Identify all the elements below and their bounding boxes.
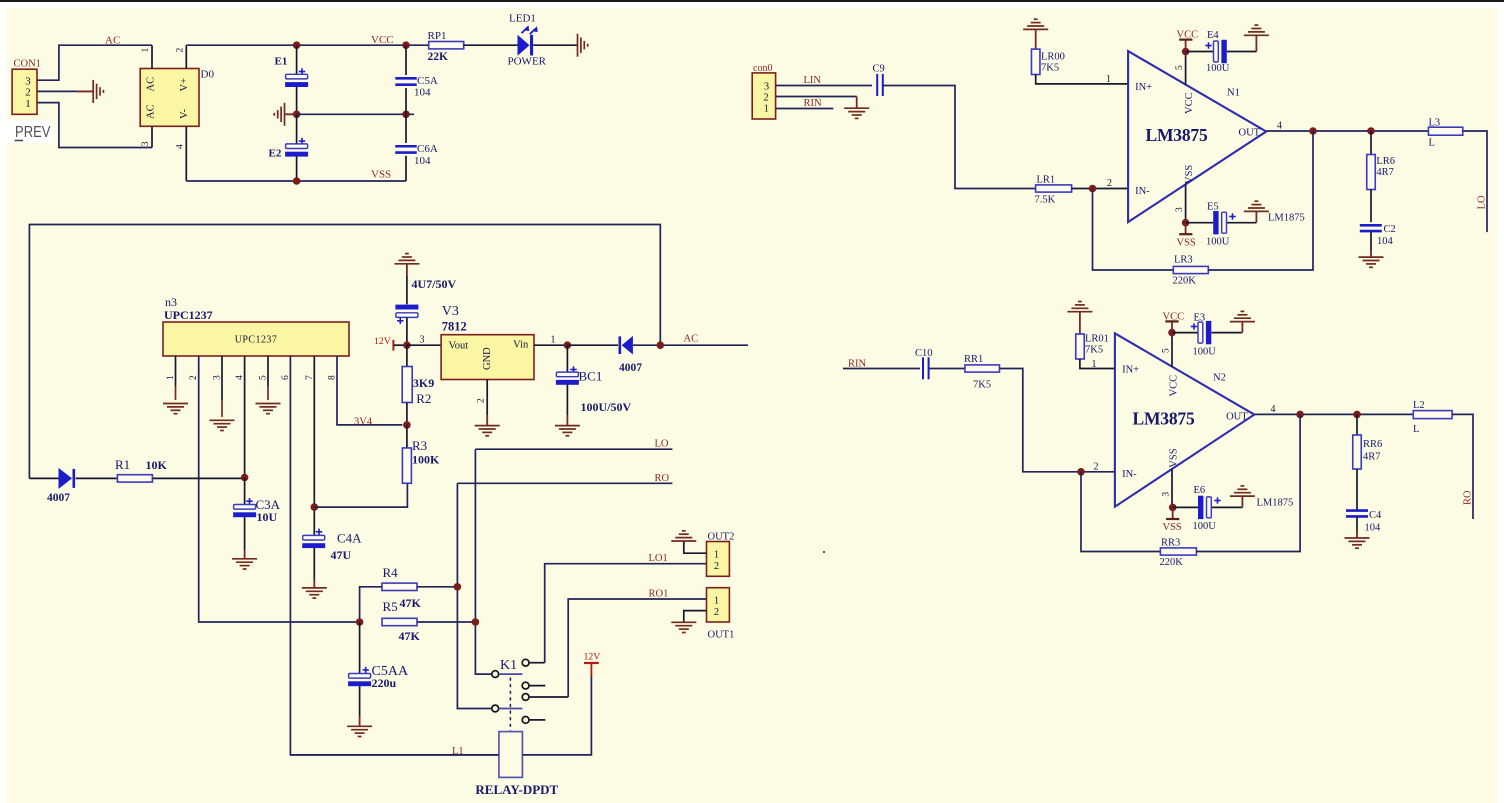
wire diode to AC node [633, 344, 748, 346]
svg-text:AC: AC [684, 334, 699, 345]
wire RR3 to OUT N2 [1197, 414, 1301, 551]
svg-text:104: 104 [414, 87, 431, 99]
svg-text:RR1: RR1 [964, 354, 983, 365]
svg-text:IN+: IN+ [1135, 82, 1152, 93]
LED LED1 [518, 35, 530, 56]
pin 3 of N1 [1185, 184, 1187, 222]
pin 7 lead of UPC1237 [313, 356, 315, 507]
ground at CON1 pin2 [93, 80, 103, 103]
pin 6 lead wire of UPC1237 [290, 356, 499, 755]
diode 4007 at regulator [567, 344, 618, 346]
ground at supply midpoint [285, 113, 296, 115]
wire contact D to RO1 [568, 599, 706, 697]
resistor LR3 [1173, 266, 1208, 273]
wire coil left to pin6 wire [290, 754, 499, 756]
ground at V3 pin2 [475, 426, 500, 436]
connector con0 [752, 73, 775, 119]
node junction pin7-R3 [311, 503, 319, 511]
node junction AC branch [657, 341, 665, 349]
inductor L3 [1428, 127, 1462, 135]
svg-text:RO1: RO1 [649, 588, 669, 599]
svg-text:100U: 100U [1193, 521, 1217, 532]
wire LED1 to ground [533, 44, 577, 46]
wire CON1 pin1 to D0 pin3 [37, 103, 152, 148]
wire con0 pin3 to C9 [776, 85, 872, 87]
svg-text:V-: V- [179, 108, 190, 119]
svg-text:R1: R1 [115, 457, 130, 472]
node junction VCC-C5A [402, 41, 410, 49]
svg-text:100U: 100U [1193, 346, 1217, 357]
node junction VCC-E1 [293, 41, 301, 49]
svg-text:VCC: VCC [1163, 311, 1185, 322]
svg-text:4U7/50V: 4U7/50V [412, 277, 457, 291]
ground right of E5 [1244, 201, 1269, 211]
node VSS label at N2 [1166, 518, 1179, 520]
capacitor E1 [296, 45, 298, 74]
svg-text:POWER: POWER [508, 56, 547, 68]
wire 12V node to V3 Vout [407, 344, 441, 346]
svg-text:4: 4 [175, 144, 185, 149]
svg-text:6: 6 [281, 375, 291, 380]
relay actuator dashed link [509, 678, 511, 732]
svg-text:104: 104 [414, 155, 431, 167]
IC n3 UPC1237 [163, 322, 349, 356]
svg-text:E6: E6 [1194, 485, 1206, 496]
resistor RP1 [429, 42, 464, 49]
wire coil right to 12V [522, 676, 591, 755]
connector CON1 [12, 69, 37, 114]
svg-text:4: 4 [235, 375, 245, 380]
svg-text:R5: R5 [383, 599, 398, 614]
svg-text:E5: E5 [1207, 201, 1219, 212]
wire contact A to LO1 [545, 564, 707, 663]
svg-text:10U: 10U [257, 510, 278, 524]
svg-text:RR6: RR6 [1363, 439, 1382, 450]
wire C2 to ground [1370, 231, 1372, 250]
pin 2 lead wire of UPC1237 [199, 356, 360, 622]
svg-text:LO: LO [655, 439, 669, 450]
wire con0 pin1 RIN stub [776, 108, 834, 110]
svg-text:VCC: VCC [1177, 29, 1199, 40]
svg-text:12V: 12V [374, 336, 391, 347]
wire E4 to ground [1227, 51, 1256, 53]
svg-text:3V4: 3V4 [354, 416, 373, 427]
svg-text:47K: 47K [399, 629, 421, 643]
svg-text:7: 7 [305, 375, 315, 380]
svg-text:22K: 22K [428, 51, 449, 63]
svg-text:L: L [1429, 138, 1435, 149]
svg-text:Vin: Vin [513, 340, 529, 351]
capacitor C5A [405, 45, 407, 75]
svg-text:LR1: LR1 [1037, 175, 1056, 186]
wire pin7 node to R3 bottom [314, 483, 407, 507]
node VCC label at N2 [1165, 320, 1178, 322]
wire VSS rail [186, 180, 406, 182]
capacitor C5AA [359, 622, 361, 674]
wire feedback down N2 [1081, 472, 1160, 552]
svg-text:3: 3 [764, 81, 769, 92]
svg-text:PREV: PREV [15, 124, 51, 141]
wire V3 Vin to BC1 [534, 344, 567, 346]
speck [823, 551, 825, 553]
ground right of E3 [1230, 311, 1255, 321]
pin 3 of N2 [1171, 469, 1173, 507]
svg-text:LR6: LR6 [1376, 156, 1395, 167]
svg-text:2: 2 [175, 48, 185, 53]
svg-text:VCC: VCC [371, 34, 394, 46]
node junction OUT-RR6 [1353, 411, 1361, 419]
ground above 4U7 capacitor [394, 254, 419, 264]
connector OUT1 [707, 588, 730, 622]
svg-text:VSS: VSS [1163, 522, 1182, 533]
svg-text:VSS: VSS [1177, 237, 1196, 248]
power port 12V at relay [590, 664, 592, 677]
wire RR1 to IN- of N2 [1000, 369, 1115, 472]
wire L2 to RO output [1452, 414, 1473, 519]
svg-text:2: 2 [714, 561, 719, 572]
svg-text:n3: n3 [165, 295, 177, 309]
node junction mid-E1 [293, 111, 301, 119]
contact D of K1 [522, 694, 529, 701]
svg-text:BC1: BC1 [579, 369, 603, 384]
svg-text:RIN: RIN [804, 98, 823, 109]
node junction IN- N2 [1077, 468, 1085, 476]
svg-text:1: 1 [764, 104, 769, 115]
svg-text:4R7: 4R7 [1363, 452, 1381, 463]
svg-text:220K: 220K [1160, 557, 1184, 568]
svg-text:1: 1 [714, 596, 719, 607]
svg-text:4: 4 [1271, 404, 1276, 415]
svg-text:LM1875: LM1875 [1268, 213, 1305, 224]
svg-text:7K5: 7K5 [973, 380, 991, 391]
pin 2 of V3 [486, 380, 488, 416]
pin 4 lead of UPC1237 [244, 356, 246, 478]
svg-text:LIN: LIN [804, 75, 822, 86]
svg-text:2: 2 [763, 92, 768, 103]
arm of pole E [499, 708, 522, 710]
svg-text:VSS: VSS [1169, 448, 1180, 467]
svg-text:1: 1 [714, 550, 719, 561]
ground below C2 [1359, 257, 1384, 267]
capacitor C3A [244, 478, 246, 505]
ground below BC1 [555, 426, 580, 436]
svg-text:R4: R4 [383, 565, 399, 580]
arm of pole B [499, 673, 522, 675]
pin 5 lead of UPC1237 [267, 356, 269, 386]
wire C9 to LR1 [883, 86, 1035, 189]
svg-text:UPC1237: UPC1237 [164, 308, 213, 322]
svg-text:OUT: OUT [1239, 128, 1261, 139]
node junction OUT-LR6 [1367, 127, 1375, 135]
contact F of K1 [522, 717, 529, 724]
ground right of E6 [1230, 486, 1255, 496]
svg-text:D0: D0 [201, 69, 215, 81]
node VCC label at N1 [1179, 38, 1192, 40]
resistor R3 100K [406, 425, 408, 448]
node junction R4-RO [454, 583, 462, 591]
wire LO from relay [475, 448, 672, 450]
capacitor BC1 [566, 345, 568, 372]
svg-text:Vout: Vout [449, 341, 469, 352]
capacitor C4 [1356, 469, 1358, 511]
svg-text:VCC: VCC [1184, 92, 1195, 114]
pole E of K1 [492, 705, 499, 712]
svg-text:RR3: RR3 [1161, 538, 1180, 549]
ground right of E4 [1244, 25, 1269, 35]
svg-text:LM1875: LM1875 [1257, 498, 1294, 509]
svg-text:C4A: C4A [337, 531, 362, 546]
svg-text:2: 2 [25, 87, 31, 99]
svg-text:1: 1 [141, 48, 151, 53]
svg-text:con0: con0 [753, 63, 772, 74]
capacitor C10 [923, 357, 929, 379]
wire R4 left [360, 587, 382, 622]
pin 8 lead wire of UPC1237 [337, 356, 402, 425]
svg-text:RO: RO [1463, 490, 1474, 505]
svg-text:L3: L3 [1429, 118, 1441, 129]
node junction VSS-E2 [293, 177, 301, 185]
ground at con0 pin2 [844, 108, 869, 118]
capacitor 4U7/50V [406, 264, 408, 276]
resistor LR1 [1036, 185, 1072, 192]
svg-text:47U: 47U [331, 548, 352, 562]
svg-text:12V: 12V [584, 652, 601, 663]
capacitor C9 [877, 74, 883, 96]
op-amp N1 LM3875 [1128, 51, 1266, 222]
svg-text:K1: K1 [500, 658, 517, 673]
ground below OUT1 [671, 622, 696, 632]
svg-text:3: 3 [141, 141, 151, 146]
svg-text:104: 104 [1377, 236, 1394, 247]
svg-text:LO1: LO1 [649, 553, 668, 564]
wire feedback down N1 [1093, 189, 1174, 271]
svg-text:V+: V+ [179, 78, 190, 92]
svg-text:IN+: IN+ [1122, 364, 1139, 375]
svg-text:10K: 10K [146, 458, 168, 472]
svg-text:E4: E4 [1207, 30, 1219, 41]
node junction IN- N1 [1089, 185, 1097, 193]
svg-text:E3: E3 [1194, 313, 1206, 324]
wire LR3 to OUT [1208, 131, 1313, 270]
svg-text:7K5: 7K5 [1041, 63, 1059, 74]
wire RO from relay [457, 482, 672, 484]
wire E6 to ground [1212, 506, 1243, 508]
wire CON1 pin2 to ground [37, 90, 76, 92]
svg-text:CON1: CON1 [14, 59, 41, 70]
capacitor C6A [405, 114, 407, 143]
button PREV overlay [5, 121, 54, 144]
ground below C4A [302, 588, 327, 598]
pin 1 lead of UPC1237 [175, 356, 177, 386]
bridge rectifier D0 [140, 69, 199, 127]
svg-text:R2: R2 [416, 391, 431, 406]
svg-text:100U/50V: 100U/50V [581, 400, 632, 414]
svg-text:OUT1: OUT1 [708, 630, 735, 641]
node junction R5-C5AA [356, 618, 364, 626]
svg-text:220K: 220K [1173, 276, 1197, 287]
capacitor E6 [1173, 506, 1198, 508]
resistor RR1 [965, 365, 1000, 372]
wire LR1 to IN- of N1 [1072, 188, 1129, 190]
pole B of K1 [492, 671, 499, 678]
svg-text:IN-: IN- [1135, 186, 1150, 197]
svg-text:VCC: VCC [1169, 375, 1180, 397]
svg-text:C5A: C5A [417, 75, 438, 87]
svg-text:2: 2 [477, 398, 487, 403]
wire OUT of N1 [1266, 130, 1428, 132]
wire OUT1 pin2 to ground [684, 611, 707, 623]
svg-text:2: 2 [1094, 462, 1099, 473]
svg-text:LO: LO [1477, 195, 1488, 209]
svg-text:47K: 47K [400, 596, 422, 610]
svg-text:100U: 100U [1206, 63, 1230, 74]
svg-text:3: 3 [420, 335, 425, 346]
node junction Vin-BC1 [564, 341, 572, 349]
ground after LED1 [578, 34, 588, 57]
svg-text:LM3875: LM3875 [1146, 125, 1208, 145]
resistor LR00 [1035, 29, 1037, 49]
wire C10 to RR1 [929, 368, 965, 370]
node junction 3V4 [403, 421, 411, 429]
inductor L2 [1413, 411, 1452, 419]
svg-text:100U: 100U [1206, 236, 1230, 247]
capacitor E4 [1186, 51, 1214, 53]
svg-text:3K9: 3K9 [413, 376, 434, 390]
wire R5 right [417, 621, 475, 623]
svg-text:LM3875: LM3875 [1133, 408, 1195, 428]
wire R1 to pin4 node [153, 477, 245, 479]
ground above LR00 [1023, 19, 1048, 29]
svg-text:220u: 220u [372, 676, 397, 690]
svg-text:VSS: VSS [1184, 165, 1195, 184]
pin 4 of D0 [185, 126, 187, 181]
op-amp N2 LM3875 [1115, 333, 1254, 506]
svg-text:3: 3 [1161, 492, 1171, 497]
wire con0 pin2 to ground [776, 96, 857, 98]
node junction 12V [403, 341, 411, 349]
svg-text:V3: V3 [442, 304, 459, 319]
svg-text:C4: C4 [1369, 510, 1382, 521]
wire LO vertical [475, 449, 491, 674]
connector OUT2 [707, 542, 730, 577]
svg-text:C10: C10 [915, 348, 933, 359]
svg-text:C6A: C6A [417, 143, 438, 155]
svg-text:OUT2: OUT2 [708, 531, 735, 542]
svg-text:LR00: LR00 [1041, 52, 1065, 63]
svg-text:VSS: VSS [371, 169, 391, 181]
svg-text:AC: AC [105, 34, 120, 46]
resistor LR01 [1079, 312, 1081, 334]
svg-text:1: 1 [1092, 359, 1097, 370]
svg-text:3: 3 [1175, 207, 1185, 212]
svg-text:4R7: 4R7 [1376, 167, 1394, 178]
wire L3 to LO output [1463, 131, 1487, 232]
svg-text:3: 3 [213, 375, 223, 380]
capacitor E3 [1172, 332, 1198, 334]
node junction OUT-feedback N1 [1309, 127, 1317, 135]
capacitor C2 [1370, 190, 1372, 223]
svg-text:C9: C9 [873, 64, 885, 75]
ground below C5AA [347, 726, 372, 736]
node junction R5-LO [472, 618, 480, 626]
node VSS label at N1 [1179, 233, 1192, 235]
resistor R5 [382, 618, 417, 625]
wire OUT2 pin1 to ground [684, 541, 707, 553]
wire CON1 pin3 to AC top [37, 45, 152, 80]
ground at UPC pin1 [163, 404, 188, 414]
resistor RR6 [1356, 414, 1358, 435]
svg-text:N1: N1 [1227, 88, 1240, 99]
pin 3 of D0 [151, 126, 153, 147]
resistor LR6 [1370, 131, 1372, 154]
wire left loop top [29, 225, 660, 479]
svg-text:L2: L2 [1413, 400, 1425, 411]
wire LR00 to IN+ of N1 [1036, 75, 1128, 84]
node junction R1-pin4 [241, 474, 249, 482]
svg-text:LR01: LR01 [1085, 333, 1109, 344]
svg-text:104: 104 [1365, 523, 1382, 534]
svg-text:1: 1 [1106, 74, 1111, 85]
svg-text:RP1: RP1 [428, 30, 447, 42]
pin 5 of N2 [1171, 333, 1173, 367]
resistor R1 [117, 475, 152, 482]
svg-text:E2: E2 [269, 148, 282, 160]
svg-text:UPC1237: UPC1237 [235, 335, 278, 346]
svg-text:7.5K: 7.5K [1035, 195, 1056, 206]
pin 3 lead of UPC1237 [221, 356, 223, 400]
svg-text:5: 5 [1175, 65, 1185, 70]
contact A of K1 [522, 659, 529, 666]
svg-text:AC: AC [146, 104, 157, 119]
svg-text:LED1: LED1 [509, 13, 536, 25]
ground above LR01 [1067, 302, 1092, 312]
svg-text:1: 1 [25, 98, 31, 110]
resistor R2 3K9 [406, 345, 408, 366]
svg-text:4007: 4007 [47, 492, 70, 504]
ground below C3A [232, 559, 257, 569]
wire VCC rail [186, 44, 428, 46]
capacitor E2 [296, 114, 298, 144]
node junction OUT-feedback N2 [1296, 411, 1304, 419]
wire RO vertical [457, 483, 491, 708]
pin 5 of N1 [1185, 52, 1187, 85]
svg-text:RELAY-DPDT: RELAY-DPDT [475, 782, 558, 797]
resistor RR3 [1160, 548, 1196, 555]
node junction mid-C5A [402, 111, 410, 119]
svg-text:5: 5 [1161, 348, 1171, 353]
svg-text:R3: R3 [412, 438, 427, 453]
wire diode to R1 [76, 477, 117, 479]
diode 4007 input [29, 477, 58, 479]
wire RP1 to LED1 [464, 44, 518, 46]
svg-text:LR3: LR3 [1174, 254, 1193, 265]
svg-text:C2: C2 [1384, 224, 1396, 235]
svg-text:8: 8 [328, 375, 338, 380]
svg-text:L: L [1413, 424, 1419, 435]
svg-text:1: 1 [166, 375, 176, 380]
svg-text:1: 1 [551, 335, 556, 346]
svg-text:2: 2 [1107, 178, 1112, 189]
resistor R4 [382, 583, 417, 590]
svg-text:100K: 100K [412, 453, 440, 467]
capacitor E5 [1186, 222, 1214, 224]
svg-text:7812: 7812 [442, 320, 467, 334]
wire R4 right [417, 586, 457, 588]
svg-text:AC: AC [146, 77, 157, 92]
wire E3 to ground [1212, 332, 1243, 334]
svg-text:OUT: OUT [1226, 411, 1248, 422]
svg-text:IN-: IN- [1122, 469, 1137, 480]
